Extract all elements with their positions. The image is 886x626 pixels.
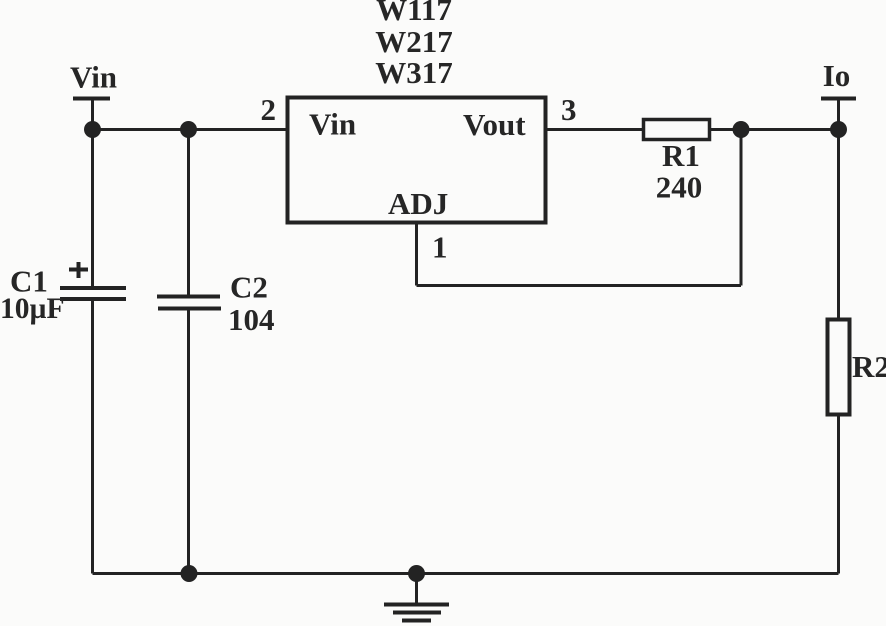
wire C1 bottom plate to bottom rail bbox=[91, 300, 94, 574]
wire R2 to bottom rail bbox=[837, 415, 840, 574]
svg-text:Vin: Vin bbox=[70, 60, 117, 95]
svg-text:R2: R2 bbox=[852, 349, 886, 384]
svg-text:R1: R1 bbox=[662, 138, 700, 173]
wire C2 branch from top node down to C2 top plate bbox=[187, 130, 190, 297]
polarity plus sign of C1 bbox=[69, 262, 88, 278]
wire bottom rail bbox=[93, 572, 839, 575]
wire top node down to C1 top plate bbox=[91, 130, 94, 288]
svg-text:Vout: Vout bbox=[463, 107, 526, 142]
svg-text:2: 2 bbox=[261, 92, 277, 127]
wire Vin node to IC pin 2 bbox=[93, 128, 288, 131]
svg-text:240: 240 bbox=[656, 170, 703, 205]
svg-text:ADJ: ADJ bbox=[388, 186, 448, 221]
svg-text:104: 104 bbox=[228, 302, 275, 337]
svg-text:Vin: Vin bbox=[309, 107, 356, 142]
svg-text:W217: W217 bbox=[375, 24, 453, 59]
junction dot output node bbox=[830, 121, 847, 138]
resistor R2 body bbox=[828, 320, 850, 415]
svg-text:3: 3 bbox=[561, 92, 577, 127]
svg-text:Io: Io bbox=[823, 58, 851, 93]
node Vin input terminal bbox=[73, 99, 110, 130]
wire R1 to output node bbox=[710, 128, 839, 131]
wire C2 bottom plate to bottom rail bbox=[187, 310, 190, 574]
ground symbol bbox=[384, 605, 449, 621]
wire ADJ pin 1 down from IC bbox=[415, 223, 418, 286]
wire feedback horizontal run bbox=[417, 284, 742, 287]
svg-text:10µF: 10µF bbox=[0, 293, 65, 325]
svg-text:W317: W317 bbox=[375, 55, 453, 90]
junction dot Vin node bbox=[84, 121, 101, 138]
capacitor C1 plates bbox=[60, 288, 126, 299]
wire IC Vout pin 3 to resistor R1 bbox=[546, 128, 645, 131]
junction dot C2 bottom node bbox=[181, 565, 198, 582]
wire feedback vertical up to output node bbox=[740, 130, 743, 286]
junction dot ground node bbox=[408, 565, 425, 582]
capacitor C2 plates bbox=[157, 297, 221, 309]
svg-text:W117: W117 bbox=[376, 0, 452, 27]
resistor R1 body bbox=[644, 120, 710, 140]
svg-text:C2: C2 bbox=[230, 270, 268, 305]
junction dot C2 top node bbox=[180, 121, 197, 138]
node Io output terminal bbox=[821, 99, 856, 130]
svg-text:1: 1 bbox=[432, 230, 448, 265]
wire output rail down to R2 bbox=[837, 130, 840, 321]
junction dot feedback node after R1 bbox=[733, 121, 750, 138]
wire ground stem bbox=[415, 574, 418, 604]
regulator IC W117/W217/W317 body bbox=[288, 98, 546, 223]
